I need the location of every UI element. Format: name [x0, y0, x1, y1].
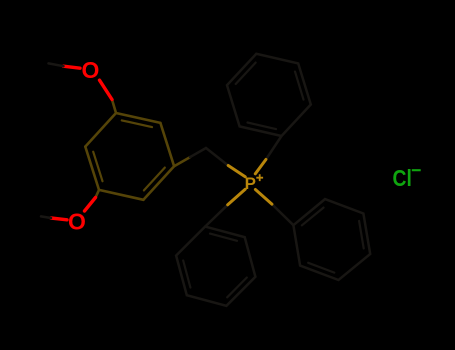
wire O2-C5 carbon half: [96, 190, 100, 198]
svg-text:O: O: [82, 57, 100, 83]
wire O1-C3 red half: [100, 80, 113, 99]
wire benzyl C1-CH2 ring half: [174, 157, 190, 166]
wire P-CH2 phosphorus half: [228, 166, 245, 177]
svg-text:O: O: [68, 209, 86, 235]
wire P-phenyl1 carbon half: [266, 136, 282, 160]
wire ring edge C5-C4: [85, 147, 99, 190]
wire CH2-P carbon half: [206, 148, 228, 166]
svg-text:P: P: [245, 174, 256, 193]
wire P-phenyl1 phosphorus half: [255, 160, 266, 174]
wire phenyl2 double bonds: [302, 208, 364, 273]
dark carbon skeleton: [41, 54, 370, 306]
wire double bond C6=C1 inner: [144, 168, 165, 191]
wire O2-CH3 red half: [51, 218, 67, 220]
wire phenyl3 double bonds: [183, 234, 247, 298]
wire double bond C2=C3 inner: [122, 120, 152, 127]
golden phosphorus bonds: [228, 160, 272, 205]
wire P-phenyl2 carbon half: [272, 204, 294, 225]
wire O1-CH3 red half: [64, 66, 81, 68]
wire ring edge C3-C2: [116, 113, 160, 123]
wire O2-CH3 methyl tail: [41, 216, 51, 218]
P plus charge: [256, 174, 263, 181]
wire ring edge C4-C3: [85, 113, 116, 147]
Cl minus charge: [412, 169, 421, 171]
wire double bond C4=C5 inner: [93, 152, 102, 182]
red oxygen bonds: [51, 66, 112, 220]
wire ring edge C2-C1: [160, 123, 174, 166]
wire benzyl CH2 half: [190, 148, 206, 157]
phenyl ring 3 (lower): [176, 227, 255, 306]
wire ring edge C1-C6: [143, 166, 174, 200]
phenyl ring 2 (right): [293, 199, 370, 280]
wire ring edge C6-C5: [99, 190, 143, 200]
benzene ring (3,5-dimethoxyphenyl): [85, 100, 190, 200]
wire P-phenyl3 carbon half: [205, 205, 228, 227]
wire P-phenyl3 phosphorus half: [228, 189, 246, 205]
wire P-phenyl2 phosphorus half: [255, 190, 272, 205]
wire O1-C3 carbon half: [112, 100, 116, 114]
wire phenyl1 double bonds: [236, 63, 304, 130]
wire O1-CH3 methyl tail: [49, 63, 64, 66]
svg-text:Cl: Cl: [393, 166, 412, 191]
phenyl ring 1 (upper): [227, 54, 311, 136]
wire O2-C5 red half: [85, 198, 96, 212]
